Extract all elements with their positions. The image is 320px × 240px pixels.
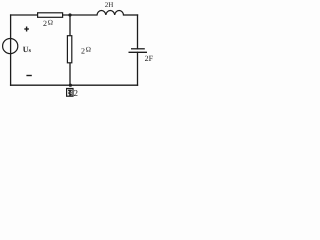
voltage source Us circle (3, 39, 18, 54)
wire right vertical upper (137, 15, 139, 49)
resistor R1 (top horizontal) (38, 13, 63, 17)
resistor R2 (middle vertical) (67, 36, 71, 63)
wire right vertical lower (137, 52, 139, 85)
capacitor C top plate (131, 48, 145, 50)
capacitor C bottom plate (129, 51, 148, 53)
node junction bottom (69, 84, 72, 87)
wire top-middle segment (63, 14, 97, 16)
wire left vertical (10, 15, 12, 85)
minus sign of source (26, 75, 31, 77)
wire top-right segment (124, 14, 138, 16)
wire middle branch upper (69, 15, 71, 36)
wire top-left segment (11, 14, 38, 16)
wire middle branch lower (69, 63, 71, 85)
svg-text:2F: 2F (145, 54, 154, 63)
svg-text:2: 2 (74, 88, 79, 98)
inductor L coil (97, 11, 124, 15)
background (0, 0, 163, 104)
node junction top (68, 13, 71, 16)
plus sign of source (24, 27, 29, 32)
svg-text:2H: 2H (105, 1, 114, 9)
caption figure glyph (tu) (67, 89, 73, 97)
wire bottom (11, 84, 138, 86)
